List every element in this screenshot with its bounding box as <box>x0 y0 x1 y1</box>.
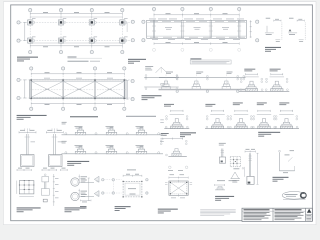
top dimension line 2 <box>30 16 122 18</box>
column ticks <box>152 26 241 31</box>
mini legend texts <box>145 66 153 70</box>
bottom dimension line <box>31 102 124 104</box>
label base plates <box>265 47 281 52</box>
schedule row 2 <box>62 141 164 154</box>
X diagonals <box>170 182 187 194</box>
wedge detail 2 <box>78 189 99 198</box>
X braces bay 3 <box>95 81 124 97</box>
bottom chord inner line + text dashes <box>147 35 247 37</box>
vertical grid lines dashed <box>30 12 122 51</box>
grid bubbles bottom <box>29 50 124 53</box>
base plate detail 1 <box>265 18 282 42</box>
annotation texts above <box>166 72 233 74</box>
dim texts bottom <box>43 45 110 48</box>
bubbles above <box>169 166 188 169</box>
grid bubbles bottom <box>30 107 126 110</box>
base plan detail <box>123 170 143 198</box>
bubbles below baseline <box>176 90 239 92</box>
bottom dim <box>80 200 91 202</box>
label plan 2 <box>17 115 47 120</box>
footing stack 1 <box>162 81 170 89</box>
footing detail R2d <box>252 103 277 129</box>
gable <box>156 67 168 73</box>
label plan 1 <box>17 57 38 62</box>
right dimension <box>126 81 128 100</box>
footing detail R2c <box>229 103 254 129</box>
footing detail R1a <box>239 69 264 92</box>
schedule row 1 <box>62 122 164 135</box>
right tick circle and line <box>242 167 244 177</box>
gusset nodes <box>30 79 125 99</box>
corner dots <box>170 182 188 195</box>
dimension string <box>53 174 55 206</box>
small anchor rod detail <box>219 143 226 163</box>
footing stack 3 <box>222 81 230 89</box>
dim cluster 2 <box>42 169 57 171</box>
footing detail R2a-lower <box>160 138 187 157</box>
footing detail R2a <box>164 104 189 129</box>
grid bubbles right <box>256 20 259 42</box>
grid bubble right of base plan <box>146 179 148 195</box>
grid bubbles right <box>131 20 134 42</box>
top dimension line <box>30 13 122 15</box>
label schedule <box>67 161 89 166</box>
label bottom-right details <box>215 196 234 201</box>
cell A text <box>244 209 270 210</box>
label plan 3 <box>128 59 146 64</box>
bay annotation dashes <box>44 78 113 90</box>
right dimension string <box>250 20 252 38</box>
footing detail R1b <box>264 69 289 92</box>
columns verticals <box>31 80 124 99</box>
pedestal box <box>169 181 188 195</box>
grid bubbles right <box>131 79 134 100</box>
frame: top chord double <box>29 80 126 99</box>
grid bubbles top <box>30 67 126 70</box>
base plate detail 2 <box>288 18 305 42</box>
dim texts top <box>43 11 110 14</box>
vertical grid dashed <box>154 11 239 20</box>
cell B text <box>275 209 302 210</box>
top dimension line <box>154 14 239 16</box>
bent bar triangle detail <box>231 172 241 182</box>
upper rail <box>159 77 246 79</box>
rebar mesh plan <box>17 180 35 196</box>
side ticks <box>165 180 192 197</box>
left dimension line <box>24 22 26 40</box>
pile circles beside caps <box>33 21 127 41</box>
grid bubbles left <box>17 78 20 99</box>
heading <box>70 116 98 117</box>
label wedges <box>80 206 87 209</box>
footing detail R2e <box>274 103 299 129</box>
label X-box <box>158 209 178 214</box>
column section circles <box>71 178 90 201</box>
horizontal grid dashed <box>20 80 132 98</box>
grid bubbles pair left <box>102 179 115 195</box>
mid strut <box>29 89 126 91</box>
pedestal B <box>46 128 63 166</box>
label bottom-left 1 <box>17 207 41 212</box>
north arrow / logo <box>307 209 312 213</box>
label brace elevation <box>142 95 162 100</box>
wedge detail 1 <box>78 175 99 184</box>
roof rectangle <box>147 20 247 38</box>
X braces bay 1 <box>31 81 63 97</box>
label row 2 <box>258 132 280 137</box>
grid bubbles top <box>29 9 124 12</box>
label pile cap detail <box>180 132 196 137</box>
dim texts <box>168 170 184 175</box>
dim line <box>169 177 188 179</box>
label under R2a <box>161 133 169 136</box>
pile caps row 1 <box>27 20 33 26</box>
grid bubbles left <box>142 20 145 42</box>
horizontal grid lines dashed <box>20 22 131 40</box>
anchor bolt vertical section <box>41 174 49 202</box>
inter-plan dim bracket <box>126 23 128 33</box>
tiny footing det <box>215 184 226 190</box>
lower rail <box>144 86 179 88</box>
dashed connectors <box>104 180 122 193</box>
bottom dim marks <box>171 197 185 200</box>
dim cluster 3 <box>61 169 68 171</box>
grid bubbles top <box>152 7 240 10</box>
grid bubbles left <box>17 21 20 42</box>
rebar mesh square <box>230 156 240 169</box>
pile caps row 2 <box>27 38 33 44</box>
label base plan <box>115 206 131 211</box>
center stack (merged with elevation stack 1) <box>161 84 165 86</box>
bottom dimension line <box>154 43 239 45</box>
pedestal A <box>19 128 36 166</box>
label L-bracket <box>273 177 289 182</box>
rail circle pairs <box>176 75 244 80</box>
label bottom-left 2 <box>65 207 87 212</box>
left dimension <box>24 80 26 98</box>
bottom bay dimension line <box>30 42 122 44</box>
footing stack 2 <box>192 81 200 89</box>
bottom dimension line <box>30 45 122 47</box>
bay center texts <box>165 27 229 29</box>
vertical grid dashed <box>31 70 124 107</box>
top dimension line <box>31 73 124 75</box>
footing detail R2b <box>205 104 230 129</box>
ground baseline <box>159 88 247 90</box>
dim cluster 1 <box>17 169 31 171</box>
X braces bay 2 <box>63 81 95 97</box>
top chord inner line + text dashes <box>147 22 247 24</box>
upper rail <box>144 76 179 78</box>
right-end dim marks <box>160 120 164 142</box>
cap annotation dashes <box>32 18 128 37</box>
columns double verticals <box>153 20 240 38</box>
legend line <box>68 57 103 62</box>
dim texts above <box>217 179 237 182</box>
faint bottom bubbles plan 3 <box>153 48 241 51</box>
